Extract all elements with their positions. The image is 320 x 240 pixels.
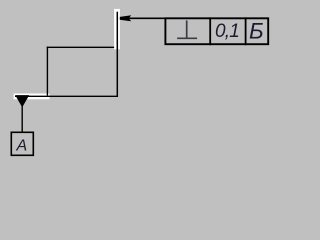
svg-text:0,1: 0,1	[215, 21, 239, 42]
wire: bottom surface line of part	[15, 95, 118, 97]
svg-text:Б: Б	[249, 18, 264, 43]
perpendicularity symbol	[177, 20, 197, 38]
frame divider 1	[209, 17, 211, 45]
svg-text:А: А	[15, 138, 27, 155]
frame divider 2	[245, 17, 247, 45]
datum box	[11, 132, 33, 155]
highlight band on toleranced vertical surface	[114, 9, 120, 49]
tolerance frame	[165, 18, 268, 44]
wire: datum stem	[21, 106, 23, 132]
wire: right vertical toleranced surface line	[116, 12, 118, 97]
highlight band on datum surface	[14, 94, 50, 100]
leader line	[128, 17, 166, 19]
wire: middle step horizontal line	[47, 46, 114, 48]
arrowhead	[120, 15, 131, 21]
datum triangle	[15, 95, 29, 107]
wire: left vertical line of step	[46, 47, 48, 96]
